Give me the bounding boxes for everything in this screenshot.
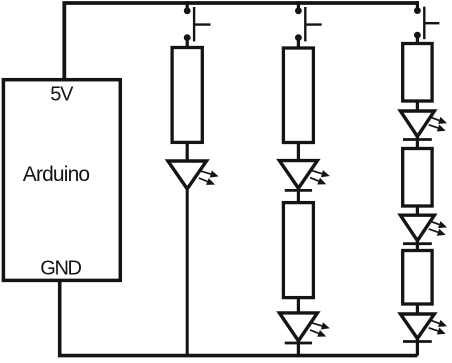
svg-text:5V: 5V (50, 83, 74, 105)
svg-text:Arduino: Arduino (23, 163, 90, 186)
svg-text:GND: GND (40, 258, 81, 280)
